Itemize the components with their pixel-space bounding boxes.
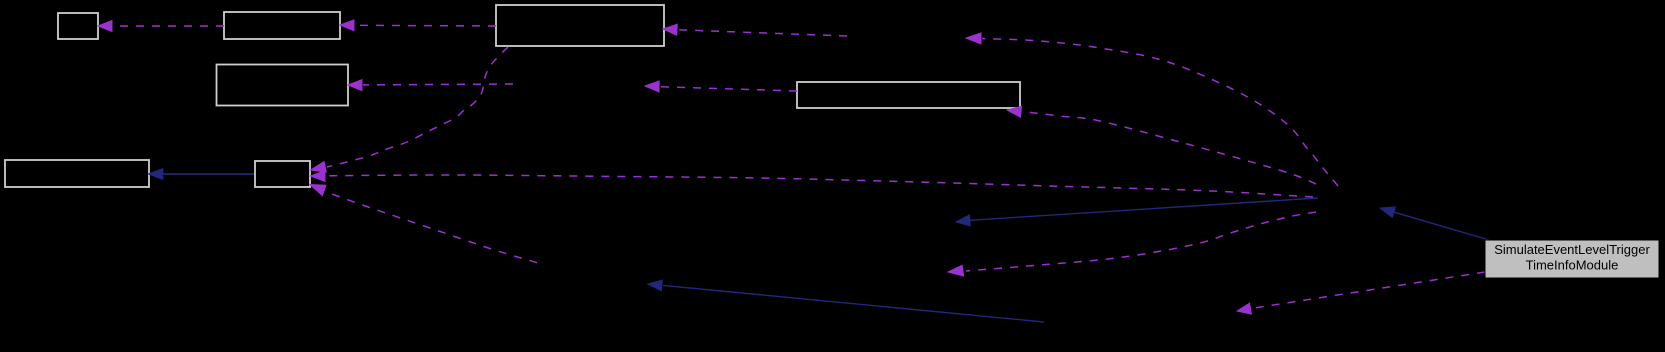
blue solid edge EB3 from hidden bottom node to hidden mid node xyxy=(648,280,1044,322)
edge E3 dashed from hidden node to B3 xyxy=(663,24,847,36)
node box B6 (bottom-left class node) xyxy=(5,160,149,187)
node box B3 (two-line class node) xyxy=(496,5,664,46)
edge R dashed from grey node B8 to hidden bottom node xyxy=(1237,272,1485,314)
grey filled node B8 SimulateEventLevelTriggerTimeInfoModule xyxy=(1485,240,1659,278)
node box B7 (small hub class node) xyxy=(255,161,310,187)
node box B5 (wide class node) xyxy=(797,82,1020,108)
blue solid edge EB2 from central hidden node down-left xyxy=(956,198,1318,226)
edge A long dashed arc from central hidden node up to hidden node near top xyxy=(966,33,1338,186)
node box B2 xyxy=(224,12,340,39)
blue solid edge EB4 from grey node B8 to central hidden node xyxy=(1380,207,1489,240)
edge P dashed line from central hidden node down-left xyxy=(948,212,1316,276)
edge E1 dashed B2 to B1 xyxy=(98,21,224,32)
edge E5 dashed from B5 to hidden node xyxy=(645,81,797,92)
edge B dashed arc from central hidden node to B5 bottom-right corner xyxy=(1007,106,1316,184)
edge C long shallow dashed line from central hidden node to B7 xyxy=(311,171,1314,197)
blue solid edge EB1 from B7 to B6 xyxy=(149,169,255,180)
svg-text:TimeInfoModule: TimeInfoModule xyxy=(1526,258,1619,273)
node box B1 (top-left small class node) xyxy=(58,13,98,39)
edge E4 dashed from hidden node to B4 xyxy=(348,80,513,91)
edge D dashed line from hidden node up-left to B7 xyxy=(310,185,537,263)
svg-text:SimulateEventLevelTrigger: SimulateEventLevelTrigger xyxy=(1494,242,1650,257)
node box B4 (two-line class node) xyxy=(217,65,349,106)
edge E2 dashed B3 to B2 xyxy=(340,20,496,31)
edge F dashed curve from B3 bottom to B7 xyxy=(311,47,509,172)
